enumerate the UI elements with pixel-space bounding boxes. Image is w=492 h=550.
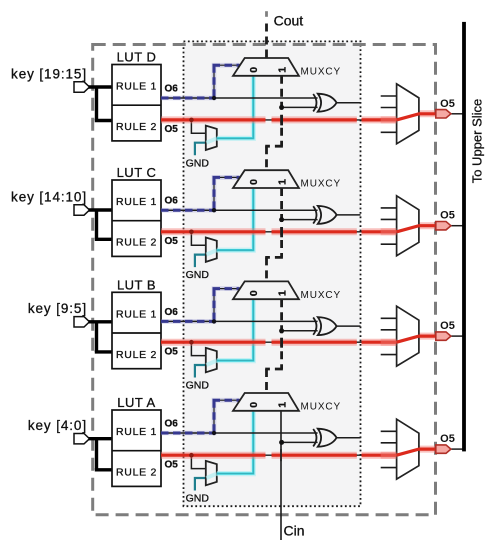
svg-text:RULE 2: RULE 2	[116, 121, 157, 133]
svg-text:LUT B: LUT B	[117, 277, 156, 292]
svg-text:O5: O5	[440, 433, 455, 445]
svg-text:GND: GND	[186, 269, 210, 281]
svg-text:GND: GND	[186, 380, 210, 392]
svg-text:RULE 1: RULE 1	[116, 81, 157, 93]
svg-text:O6: O6	[165, 307, 179, 318]
svg-text:key [4:0]: key [4:0]	[28, 418, 87, 433]
svg-text:To Upper Slice: To Upper Slice	[470, 99, 485, 184]
svg-text:Cin: Cin	[284, 523, 305, 539]
svg-text:O6: O6	[165, 84, 179, 95]
svg-text:O5: O5	[165, 236, 179, 247]
svg-text:0: 0	[248, 67, 260, 73]
svg-text:O5: O5	[165, 124, 179, 135]
svg-text:RULE 1: RULE 1	[116, 308, 157, 320]
svg-text:0: 0	[248, 402, 260, 408]
svg-text:1: 1	[276, 290, 288, 296]
svg-text:LUT D: LUT D	[117, 50, 157, 65]
svg-text:MUXCY: MUXCY	[301, 290, 342, 301]
svg-text:O5: O5	[165, 460, 179, 471]
svg-text:key [14:10]: key [14:10]	[11, 189, 87, 204]
svg-text:RULE 1: RULE 1	[116, 426, 157, 438]
svg-text:O5: O5	[440, 98, 455, 110]
svg-text:MUXCY: MUXCY	[301, 402, 342, 413]
svg-text:RULE 2: RULE 2	[116, 467, 157, 479]
svg-text:key [19:15]: key [19:15]	[11, 66, 87, 81]
svg-text:O5: O5	[440, 320, 455, 332]
svg-text:Cout: Cout	[274, 13, 304, 29]
svg-text:0: 0	[248, 290, 260, 296]
svg-text:MUXCY: MUXCY	[301, 179, 342, 190]
svg-text:LUT C: LUT C	[117, 165, 157, 180]
svg-text:RULE 2: RULE 2	[116, 349, 157, 361]
svg-text:key [9:5]: key [9:5]	[28, 301, 87, 316]
svg-text:1: 1	[276, 179, 288, 185]
svg-text:RULE 1: RULE 1	[116, 196, 157, 208]
svg-text:O6: O6	[165, 419, 179, 430]
svg-text:GND: GND	[186, 493, 210, 505]
svg-text:LUT A: LUT A	[117, 395, 155, 410]
svg-text:1: 1	[276, 402, 288, 408]
svg-text:RULE 2: RULE 2	[116, 237, 157, 249]
svg-text:1: 1	[276, 67, 288, 73]
svg-text:O5: O5	[440, 210, 455, 222]
svg-text:O6: O6	[165, 196, 179, 207]
svg-text:GND: GND	[186, 157, 210, 169]
svg-text:MUXCY: MUXCY	[301, 67, 342, 78]
svg-text:O5: O5	[165, 347, 179, 358]
svg-text:0: 0	[248, 179, 260, 185]
